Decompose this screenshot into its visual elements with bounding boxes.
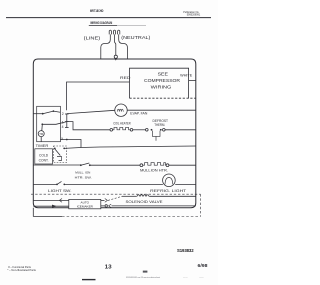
svg-text:·——: ·—— <box>199 277 204 279</box>
lamp filament loop <box>165 178 173 185</box>
svg-text:5995209991-en-13-service-data-: 5995209991-en-13-service-data-sheet <box>126 276 160 279</box>
junction dot upper <box>53 110 55 112</box>
wire mullion switch to heater <box>90 164 140 166</box>
svg-text:WHITE: WHITE <box>180 74 193 78</box>
svg-text:THERM.: THERM. <box>154 123 165 127</box>
auto icemaker box <box>69 199 101 208</box>
plug prong center <box>113 30 115 34</box>
wire terminal X run <box>60 140 195 148</box>
cold control bellows <box>57 157 62 161</box>
ground arrow <box>115 59 117 61</box>
wire light switch to lamp <box>64 183 163 185</box>
svg-text:HTR. SW.: HTR. SW. <box>75 175 92 179</box>
wire cold control to run <box>64 147 81 150</box>
cold control label box <box>35 149 53 164</box>
terminal 2 tick <box>65 113 69 115</box>
svg-text:EVAP. FAN: EVAP. FAN <box>130 112 148 116</box>
wire light row left <box>33 183 57 185</box>
plug prong left <box>109 30 111 34</box>
top rule <box>6 17 211 19</box>
svg-text:ICEMAKER: ICEMAKER <box>77 205 94 209</box>
dashed wire to solenoid <box>108 196 122 200</box>
cold control contact dot right <box>63 148 65 150</box>
connector chevron right <box>105 199 108 203</box>
mullion heater resistor <box>143 163 166 166</box>
wire red <box>67 82 130 110</box>
svg-text:MULL. ION: MULL. ION <box>75 170 90 174</box>
svg-text:* – Non-Illustrated Parts: * – Non-Illustrated Parts <box>7 268 36 272</box>
therm contact dot right <box>160 129 162 131</box>
wire icemaker upper right <box>101 199 105 201</box>
icemaker dashed enclosure right <box>200 194 202 216</box>
svg-text:CONT.: CONT. <box>39 158 49 162</box>
svg-text:COLD: COLD <box>39 153 49 157</box>
defrost therm right terminal <box>163 129 166 132</box>
footer short line <box>82 279 96 281</box>
wire neutral-side <box>119 34 128 59</box>
wire coil heater to therm <box>133 129 146 131</box>
timer blade upper <box>43 111 54 114</box>
svg-text:5995209991: 5995209991 <box>187 13 201 17</box>
main circuit box <box>33 59 196 208</box>
wire icemaker lower left <box>33 205 69 207</box>
terminal column vertical <box>66 114 68 128</box>
mullion switch pivot dot <box>80 164 82 166</box>
mullion heater right terminal <box>166 164 169 167</box>
coil heater resistor <box>113 127 131 129</box>
svg-text:COMPRESSOR: COMPRESSOR <box>144 78 180 83</box>
junction pivot dot <box>42 113 44 115</box>
terminal 1 tick <box>65 121 69 123</box>
wire therm to rail <box>165 129 196 131</box>
svg-text:MRT18CHD: MRT18CHD <box>90 9 104 13</box>
svg-text:COIL HEATER: COIL HEATER <box>113 122 131 126</box>
wire ground prong <box>115 34 116 55</box>
svg-text:S193832: S193832 <box>177 248 194 253</box>
wire evap fan <box>67 110 115 113</box>
cold control blade <box>55 149 61 156</box>
svg-text:(LINE): (LINE) <box>84 36 101 41</box>
svg-text:WIRING: WIRING <box>151 84 172 89</box>
svg-text:SEE: SEE <box>158 72 168 77</box>
wire terminal1 to coil heater <box>67 122 110 130</box>
compressor box U1 <box>130 68 189 98</box>
coil heater right terminal <box>130 129 133 132</box>
wire solenoid to rail <box>149 195 196 197</box>
svg-text:2: 2 <box>62 112 64 116</box>
compressor box dashed bottom <box>130 97 196 99</box>
svg-text:SOLENOID VALVE: SOLENOID VALVE <box>126 200 164 204</box>
timer motor TM <box>38 131 44 137</box>
wire line to timer pivot <box>33 113 42 115</box>
svg-text:—·—: —·— <box>183 277 188 279</box>
wire mullion heater to rail <box>169 164 196 166</box>
plug prong right <box>118 30 120 34</box>
wire TM top <box>41 124 44 130</box>
wire TM bottom <box>40 137 42 142</box>
mullion switch contact dot <box>89 164 91 166</box>
connector socket circle <box>105 205 107 207</box>
mullion switch blade <box>81 163 90 165</box>
svg-text:WIRING DIAGRAM: WIRING DIAGRAM <box>90 20 112 25</box>
svg-text:LIGHT SW.: LIGHT SW. <box>48 189 72 193</box>
icemaker dashed enclosure left <box>32 208 34 217</box>
cold control contact dot left <box>54 148 56 150</box>
coil heater left terminal <box>110 129 113 132</box>
svg-text:TIMER: TIMER <box>36 144 49 148</box>
wire icemaker upper left <box>33 199 69 201</box>
wire lower right to rail <box>112 205 196 207</box>
defrost timer box <box>37 106 61 141</box>
ground circle <box>114 55 117 58</box>
light switch contact dot <box>63 184 65 186</box>
wire lamp to rail <box>175 183 196 185</box>
svg-text:4: 4 <box>62 125 64 129</box>
therm contact dot left <box>151 129 153 131</box>
connector arrow filled <box>52 205 57 208</box>
svg-text:MULLION HTR.: MULLION HTR. <box>140 169 168 173</box>
light switch blade <box>57 181 62 184</box>
solenoid coil L1 <box>137 195 149 197</box>
therm bimetal bracket <box>153 131 161 137</box>
connector chevron lower right <box>109 204 112 208</box>
timer blade tip to contact 2 <box>53 111 60 112</box>
svg-text:RED: RED <box>120 76 131 80</box>
timer blade 2 <box>42 122 67 125</box>
wire icemaker lower right <box>101 205 105 207</box>
terminal X dot <box>66 139 68 141</box>
wire to solenoid coil <box>122 195 137 197</box>
wire evap fan to rail <box>127 109 196 111</box>
mullion heater left terminal <box>140 164 143 167</box>
wire mullion row <box>33 164 81 166</box>
defrost therm left terminal <box>146 129 149 132</box>
terminal 4 tick <box>65 127 69 129</box>
evap fan motor <box>115 104 127 116</box>
connector chevron left <box>59 199 62 203</box>
svg-text:(NEUTRAL): (NEUTRAL) <box>121 35 151 40</box>
light switch pivot dot <box>56 184 58 186</box>
wire line-side <box>101 34 111 59</box>
svg-text:13: 13 <box>105 265 112 271</box>
icemaker dashed enclosure top <box>31 193 201 195</box>
svg-text:REFRIG. LIGHT: REFRIG. LIGHT <box>150 189 186 193</box>
therm bracket tail <box>155 136 157 140</box>
timer pivot 2 dot <box>41 123 43 125</box>
cold control dashed box <box>54 146 67 163</box>
svg-text:6/98: 6/98 <box>198 263 208 268</box>
icemaker dashed enclosure bottom <box>33 216 62 218</box>
evap fan coil squiggle <box>117 109 123 111</box>
tiny footer mark <box>143 271 148 273</box>
refrig light lamp <box>163 174 176 187</box>
wire white <box>189 80 196 82</box>
